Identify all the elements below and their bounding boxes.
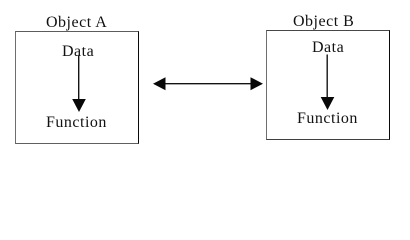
label Data (left box) [62,44,94,60]
box Object B [266,30,390,140]
arrowhead down (left box) [72,99,86,112]
wire: right vertical arrow shaft [326,55,328,98]
label Function (right box) [297,111,358,127]
label Object B [293,14,354,30]
label Function (left box) [46,115,107,131]
arrowhead right [251,77,264,90]
label Object A [46,15,107,31]
box Object A [15,31,139,144]
wire: left vertical arrow shaft [78,56,80,100]
arrowhead left [153,77,166,90]
arrow Data->Function (left box) [0,0,410,157]
label Data (right box) [312,40,344,56]
wire: horizontal shaft [163,83,253,85]
arrowhead down (right box) [321,97,335,110]
